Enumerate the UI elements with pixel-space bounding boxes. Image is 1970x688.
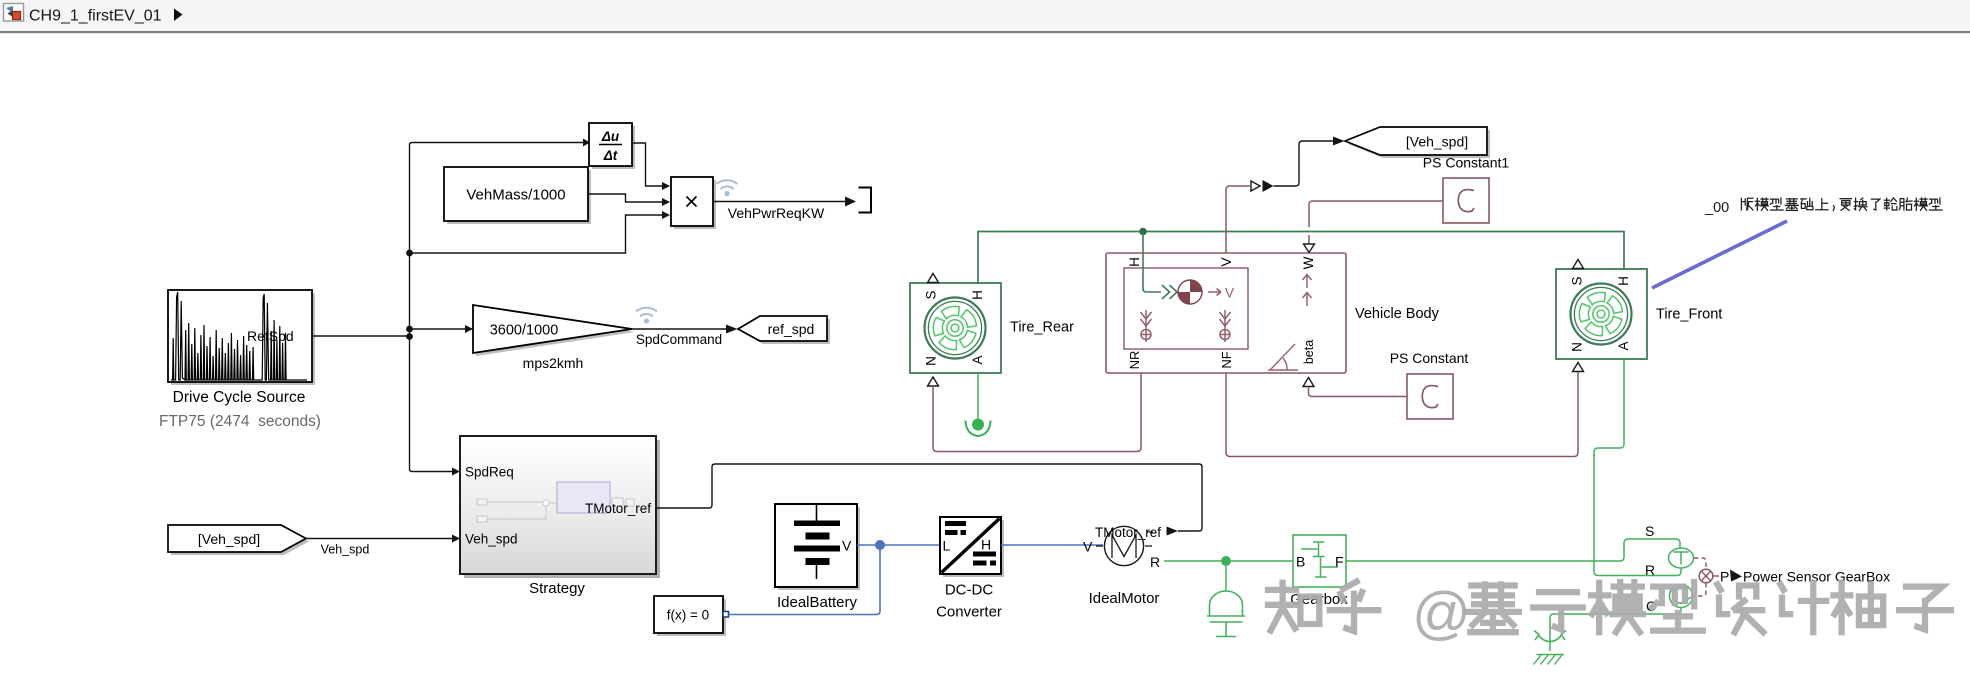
P wire stub <box>1713 575 1719 577</box>
DC-DC shadow <box>943 520 1004 577</box>
annotation glyph 基 <box>1785 199 1798 211</box>
beta angle icon <box>1268 344 1298 370</box>
svg-text:V: V <box>1225 286 1234 301</box>
svg-text:H: H <box>981 537 991 553</box>
Strategy input arrow Veh_spd <box>452 535 460 543</box>
wire tire hubs horizontal (dark green) <box>978 232 1624 284</box>
battery plate 2 <box>806 533 830 540</box>
svg-text:F: F <box>1335 554 1344 570</box>
svg-text:[Veh_spd]: [Veh_spd] <box>1406 134 1468 150</box>
Strategy block shadow <box>464 440 660 578</box>
from tag [Veh_spd] <box>168 525 306 552</box>
inertia stem <box>1225 622 1227 636</box>
wire body V up to converter (maroon) <box>1226 186 1250 253</box>
svg-text:@: @ <box>1412 581 1471 646</box>
watermark glyph 子 <box>1899 587 1951 630</box>
gain block shadow <box>476 308 635 356</box>
wire PSConstant1 to W port (maroon, gap at green line) <box>1309 201 1443 227</box>
rotational free end dot <box>972 419 984 431</box>
svg-text:NR: NR <box>1127 351 1142 370</box>
rotational free end cup <box>966 421 991 437</box>
wire from tag to Strategy <box>306 538 452 540</box>
annotation glyph 模 <box>1755 198 1768 210</box>
product block <box>671 177 713 226</box>
svg-text:B: B <box>1296 554 1305 570</box>
V arrow inside body <box>1208 289 1221 296</box>
inertia bell base line <box>1207 615 1245 617</box>
gearbox right shaft <box>1322 566 1339 568</box>
inertia bell <box>1210 591 1243 616</box>
Tire_Front wheel icon <box>1571 284 1632 345</box>
wire derivative to product input1 <box>632 143 662 186</box>
solver block f(x)=0 <box>654 596 723 633</box>
DC symbol bottom solid <box>973 552 996 557</box>
wire TMotor_ref feedback <box>656 464 1202 531</box>
watermark glyph 设 <box>1717 584 1763 632</box>
PS output dashed wires <box>1693 558 1706 596</box>
Drive Cycle Source block shadow <box>171 293 315 385</box>
terminator arrowhead <box>845 197 856 207</box>
svg-text:L: L <box>943 538 951 554</box>
annotation glyph 模 <box>1914 198 1927 210</box>
product X symbol <box>687 197 697 207</box>
goto tag ref_spd shadow <box>741 319 830 344</box>
svg-text:FTP75 (2474 seconds): FTP75 (2474 seconds) <box>159 413 321 430</box>
torque sensor T circle <box>1669 548 1694 568</box>
goto veh_spd arrowhead <box>1333 137 1345 146</box>
goto tag Veh_spd shadow <box>1348 130 1490 158</box>
annotation glyph 胎 <box>1899 198 1912 210</box>
goto tag [Veh_spd] top <box>1345 127 1487 155</box>
Strategy block <box>460 436 656 574</box>
DC symbol bottom dashes <box>973 561 987 566</box>
DC-DC Converter block <box>940 517 1001 574</box>
Tire_Front block <box>1556 269 1647 359</box>
svg-text:Tire_Rear: Tire_Rear <box>1010 320 1074 336</box>
feedback arrowhead into motor <box>1167 527 1179 536</box>
solver block f(x)=0 shadow <box>657 599 726 636</box>
annotation glyph 换 <box>1854 198 1867 210</box>
W wind arrows <box>1303 275 1312 307</box>
svg-text:S: S <box>1645 523 1654 539</box>
svg-text:S: S <box>923 290 938 299</box>
Tire_Front N triangle <box>1573 363 1584 372</box>
watermark glyph 型 <box>1652 582 1703 630</box>
watermark glyph 乎 <box>1330 582 1379 632</box>
wire branch to gain <box>410 328 474 330</box>
ground hatches <box>1534 655 1563 665</box>
watermark glyph 知 <box>1268 583 1319 631</box>
gearbox upper gear <box>1318 542 1320 557</box>
gearbox left shaft <box>1301 548 1318 550</box>
svg-text:Veh_spd: Veh_spd <box>321 543 370 557</box>
annotation glyph 上 <box>1816 199 1828 210</box>
annotation glyph comma <box>1833 206 1834 211</box>
inertia base <box>1216 636 1236 638</box>
DC symbol top solid <box>945 521 966 526</box>
watermark glyph 基 <box>1467 584 1519 632</box>
wire branch to product input3 <box>410 215 663 253</box>
wire branch down to Strategy SpdReq <box>410 336 453 472</box>
annotation glyph 了 <box>1871 199 1880 210</box>
svg-text:H: H <box>1127 257 1142 267</box>
goto tag ref_spd <box>738 316 827 341</box>
DC-DC diagonal <box>942 519 1000 573</box>
Tire_Front S triangle <box>1573 260 1584 269</box>
svg-text:Tire_Front: Tire_Front <box>1656 307 1722 323</box>
product block shadow <box>674 180 716 229</box>
svg-text:f(x) = 0: f(x) = 0 <box>667 608 709 623</box>
svg-text:SpdCommand: SpdCommand <box>636 332 722 347</box>
inertia second line <box>1210 621 1243 623</box>
svg-text:N: N <box>923 356 938 366</box>
wifi logging icon gain <box>636 308 657 317</box>
motor side ticks <box>1096 545 1103 547</box>
svg-text:Vehicle Body: Vehicle Body <box>1355 306 1440 322</box>
junction dot <box>406 333 413 340</box>
wire T bottom to R loop <box>1594 454 1681 576</box>
svg-text:IdealBattery: IdealBattery <box>777 594 858 611</box>
svg-text:ref_spd: ref_spd <box>768 321 815 337</box>
gain block mps2kmh triangle <box>473 305 632 353</box>
svg-text:IdealMotor: IdealMotor <box>1089 590 1160 607</box>
PS Constant1 C glyph <box>1458 190 1474 212</box>
IdealBattery block <box>775 504 857 587</box>
NF force arrow <box>1220 310 1231 342</box>
C circle rotation glyph <box>1673 587 1688 603</box>
annotation connector line <box>1652 221 1787 288</box>
T glyph <box>1674 552 1689 565</box>
wire product to terminator <box>713 201 845 203</box>
svg-text:mps2kmh: mps2kmh <box>523 355 584 371</box>
svg-text:Δt: Δt <box>603 148 618 163</box>
wire converter to goto Veh_spd <box>1274 141 1334 186</box>
svg-text:Veh_spd: Veh_spd <box>465 532 518 547</box>
svg-text:Strategy: Strategy <box>529 580 585 597</box>
Tire_Rear N triangle <box>928 377 939 386</box>
battery symbol top lead <box>816 505 818 521</box>
watermark glyph 于 <box>1533 592 1583 629</box>
annotation glyph 型 <box>1929 198 1942 210</box>
svg-text:A: A <box>970 355 985 364</box>
IdealBattery shadow <box>778 507 860 590</box>
wire Tire_Rear N to body NR (maroon) <box>933 374 1141 452</box>
blue junction dot <box>875 540 885 550</box>
breadcrumb arrow <box>174 9 183 22</box>
watermark glyph 计 <box>1780 583 1826 632</box>
model icon <box>4 4 24 22</box>
derivative fraction bar <box>599 144 622 146</box>
motor M glyph <box>1112 535 1136 558</box>
svg-text:beta: beta <box>1302 340 1316 364</box>
svg-text:_00: _00 <box>1704 200 1729 216</box>
battery plate 3 <box>794 546 840 552</box>
NR force arrow <box>1141 310 1152 342</box>
battery plate 4 <box>806 558 830 565</box>
svg-text:Converter: Converter <box>936 604 1002 621</box>
wire PS Constant to beta port <box>1309 387 1408 397</box>
battery bottom lead <box>816 565 818 579</box>
PS Constant C glyph <box>1422 386 1438 408</box>
W port triangle <box>1304 244 1315 253</box>
svg-text:NF: NF <box>1219 351 1234 368</box>
wire battery to DCDC (blue) <box>857 544 940 546</box>
Vehicle Body outer box <box>1106 253 1346 373</box>
wire Tire_Rear A to free end <box>977 373 979 419</box>
wire junction down to inertia <box>1225 561 1227 591</box>
junction dot <box>406 250 413 257</box>
product input arrow 3 <box>662 211 670 219</box>
watermark glyph 模 <box>1591 582 1643 632</box>
svg-text:TMotor_ref: TMotor_ref <box>585 501 651 516</box>
CG circle <box>1178 280 1202 304</box>
gain input arrow <box>465 325 473 333</box>
junction dot <box>406 326 413 333</box>
motion sensor C circle <box>1670 585 1693 608</box>
annotation glyph 轮 <box>1884 198 1897 210</box>
svg-text:[Veh_spd]: [Veh_spd] <box>198 531 260 547</box>
svg-text:RefSpd: RefSpd <box>247 328 294 344</box>
derivative block shadow <box>592 126 635 169</box>
svg-text:TMotor_ref: TMotor_ref <box>1095 525 1161 540</box>
from tag Veh_spd shadow <box>171 528 309 555</box>
svg-text:Drive Cycle Source: Drive Cycle Source <box>173 389 306 406</box>
svg-text:VehPwrReqKW: VehPwrReqKW <box>728 205 825 221</box>
svg-text:W: W <box>1301 256 1316 269</box>
wire RefSpd output <box>312 335 410 337</box>
gearbox lower gear <box>1320 558 1322 578</box>
Strategy preview wires <box>477 498 634 522</box>
goto arrowhead <box>726 325 738 334</box>
derivative block input arrow <box>583 139 590 147</box>
IdealMotor circle <box>1104 526 1143 565</box>
svg-text:V: V <box>842 538 852 554</box>
green junction dot <box>1221 556 1231 566</box>
wire solver to battery net (blue) <box>729 545 881 615</box>
rotational reference curved arrow <box>1538 634 1562 642</box>
svg-text:P: P <box>1720 569 1729 585</box>
svg-text:PS Constant: PS Constant <box>1390 350 1469 366</box>
H wire inside body <box>1143 253 1161 292</box>
breadcrumb toolbar <box>0 0 1970 31</box>
H chevrons <box>1162 285 1177 299</box>
annotation glyph 型 <box>1770 198 1783 210</box>
DC symbol top dashes <box>945 530 958 535</box>
wire Tire_Front A down to sensor net <box>1594 359 1624 456</box>
VehMass/1000 constant block <box>444 167 588 221</box>
svg-text:CH9_1_firstEV_01: CH9_1_firstEV_01 <box>29 8 162 25</box>
Tire_Rear block <box>910 283 1001 373</box>
wifi logging icon product <box>717 180 738 189</box>
svg-text:N: N <box>1569 342 1584 352</box>
Tire_Rear S triangle <box>928 274 939 283</box>
Tire_Rear wheel icon <box>925 298 986 359</box>
wire main vertical branch <box>410 143 584 337</box>
svg-text:A: A <box>1616 341 1631 350</box>
Drive Cycle Source waveform <box>171 292 307 380</box>
wire body NF to Tire_Front N (maroon) <box>1226 372 1578 457</box>
Vehicle Body inner box <box>1124 268 1248 349</box>
annotation glyph 础 <box>1801 198 1813 210</box>
PS-Simulink converter triangles <box>1251 181 1260 191</box>
PS Constant block <box>1407 374 1453 419</box>
PS Constant1 block <box>1443 178 1489 223</box>
product input arrow 1 <box>662 182 670 190</box>
svg-text:H: H <box>970 290 985 300</box>
svg-text:DC-DC: DC-DC <box>945 582 993 599</box>
Drive Cycle Source block <box>168 290 312 382</box>
terminator block <box>859 188 872 213</box>
wire DCDC to motor (blue) <box>1001 544 1103 546</box>
product input arrow 2 <box>662 198 670 206</box>
svg-text:V: V <box>1083 539 1093 555</box>
dark green junction dot <box>1139 228 1147 236</box>
annotation glyph 更 <box>1840 199 1851 211</box>
Strategy input arrow SpdReq <box>452 468 460 476</box>
svg-text:SpdReq: SpdReq <box>465 465 514 480</box>
label arrow <box>1730 570 1742 582</box>
Strategy preview chart box <box>557 482 610 513</box>
svg-text:Δu: Δu <box>601 129 620 144</box>
wire gain to goto <box>632 328 726 330</box>
svg-text:VehMass/1000: VehMass/1000 <box>466 187 565 204</box>
battery plate 1 <box>794 521 840 527</box>
rotational reference ground line <box>1537 654 1565 656</box>
Gearbox block <box>1293 535 1346 587</box>
svg-text:H: H <box>1616 276 1631 286</box>
VehMass constant shadow <box>447 170 591 224</box>
svg-text:S: S <box>1569 276 1584 285</box>
wire junction to vehicle body H <box>1142 232 1144 254</box>
PS power port circle-x <box>1699 569 1713 583</box>
wire gearbox F to sensor <box>1346 539 1680 561</box>
solver port square <box>723 612 729 618</box>
wire C to rotational reference <box>1550 608 1681 652</box>
svg-text:PS Constant1: PS Constant1 <box>1423 155 1510 171</box>
beta port triangle <box>1303 378 1314 387</box>
svg-text:3600/1000: 3600/1000 <box>490 323 559 339</box>
watermark glyph 柚 <box>1834 583 1884 632</box>
derivative block Du/Dt <box>589 123 632 166</box>
svg-text:V: V <box>1219 257 1234 266</box>
wire VehMass to product input2 <box>588 194 662 202</box>
wire motor R to gearbox B <box>1164 560 1293 562</box>
svg-text:R: R <box>1150 554 1160 570</box>
annotation glyph 版 <box>1741 198 1753 210</box>
